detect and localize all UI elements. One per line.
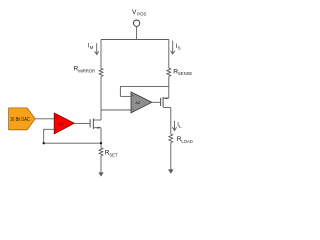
terminal VPOS circle <box>133 20 139 26</box>
wire DAC to A1 <box>35 118 54 120</box>
resistor RSET <box>99 148 103 158</box>
node VPOS label <box>132 9 147 16</box>
wire A1 output to Q1 gate <box>74 122 89 124</box>
junction dot feedback corner <box>43 142 45 144</box>
label IM <box>88 44 94 51</box>
svg-text:16 Bit DAC: 16 Bit DAC <box>10 117 30 123</box>
label RLOAD <box>177 136 193 144</box>
ground RSET <box>99 173 104 177</box>
transistor Q2 <box>161 97 171 108</box>
label RMIRROR <box>73 66 95 74</box>
wire RSET to ground <box>100 158 102 174</box>
wire A2 minus input (from mirror node) <box>101 109 131 111</box>
label IL <box>177 122 182 129</box>
wire top rail <box>101 39 169 41</box>
junction dot RSET tap <box>100 142 102 144</box>
resistor RLOAD <box>169 134 173 145</box>
wire A1 feedback (source to inverting input) <box>44 129 101 143</box>
svg-text:A1: A1 <box>59 121 65 126</box>
current arrow IM <box>95 43 99 54</box>
wire A2 output to Q2 gate <box>152 101 160 103</box>
svg-text:POS: POS <box>137 12 146 17</box>
svg-text:SENSE: SENSE <box>178 71 192 76</box>
orange block DAC <box>9 108 36 130</box>
transistor Q1 <box>90 118 101 129</box>
svg-text:SET: SET <box>109 152 118 157</box>
wire left branch mid (RMIRROR to Q1 drain) <box>100 77 102 120</box>
wire VPOS stem <box>136 26 138 39</box>
wire Q2 source down <box>170 108 172 135</box>
op-amp A1 <box>54 113 74 134</box>
svg-text:L: L <box>179 124 182 129</box>
resistor RMIRROR <box>99 68 103 76</box>
wire RLOAD to ground <box>170 145 172 171</box>
svg-text:LOAD: LOAD <box>181 139 192 144</box>
label RSET <box>105 150 118 158</box>
svg-text:MIRROR: MIRROR <box>78 68 95 73</box>
current arrow IS <box>171 41 175 54</box>
wire A2 plus input <box>120 95 131 97</box>
resistor RSENSE <box>167 68 171 76</box>
svg-text:+: + <box>132 94 134 98</box>
svg-text:+: + <box>55 116 57 120</box>
svg-text:A2: A2 <box>135 100 141 105</box>
svg-text:M: M <box>90 45 94 50</box>
label RSENSE <box>173 68 192 76</box>
wire A2 feedback loop <box>120 86 168 96</box>
current arrow IL <box>172 121 176 131</box>
ground RLOAD <box>168 170 173 174</box>
label IS <box>176 44 181 51</box>
svg-text:S: S <box>178 46 181 51</box>
wire right branch (RSENSE to Q2 drain) <box>168 77 170 99</box>
wire left branch upper <box>100 40 102 69</box>
wire right branch upper <box>168 40 170 69</box>
wire Q1 source down <box>100 128 102 148</box>
op-amp A2 <box>131 92 152 113</box>
